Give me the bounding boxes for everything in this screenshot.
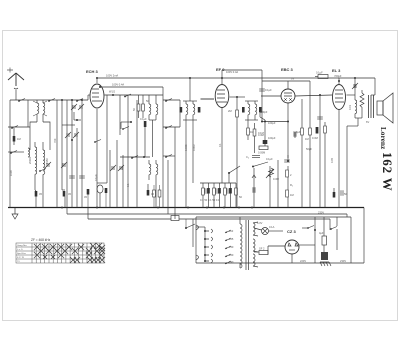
tap arrow 220 <box>225 253 234 257</box>
secondary 3 <box>253 254 255 266</box>
svg-text:100V 2mA: 100V 2mA <box>106 74 118 78</box>
bus dots <box>61 207 253 209</box>
agc resistor right2 <box>286 190 294 208</box>
EBC3 left wire <box>261 95 281 97</box>
svg-text:0.1µF: 0.1µF <box>265 88 272 92</box>
IF transformer 2 <box>242 101 262 120</box>
contact 1 <box>204 229 213 233</box>
svg-text:6V: 6V <box>366 120 369 124</box>
osc label 01C <box>218 143 222 147</box>
wire v77 <box>76 128 78 208</box>
svg-text:162 W: 162 W <box>380 152 395 192</box>
switch S2 <box>48 99 55 102</box>
bank labels <box>200 198 220 202</box>
svg-text:0.1: 0.1 <box>218 143 222 147</box>
speaker wires <box>355 118 362 126</box>
svg-text:0.003: 0.003 <box>192 144 196 151</box>
misc label 1 <box>146 99 149 103</box>
bank resistor 7 <box>235 183 238 208</box>
EL3 grid cap <box>315 71 328 79</box>
svg-text:700: 700 <box>53 138 57 143</box>
small tube cap <box>97 185 103 208</box>
power right edge <box>351 208 364 264</box>
ground symbol <box>12 208 18 220</box>
bank resistor 1 <box>202 183 205 208</box>
det cap dark <box>263 136 276 144</box>
agc resistor right <box>286 166 292 190</box>
coil marks x28 <box>28 148 30 157</box>
cathode cap dark <box>105 188 108 208</box>
resistor blob 0.3M <box>312 127 318 140</box>
table X marks band2 <box>38 248 105 254</box>
EBC3 plate loads <box>301 99 304 208</box>
svg-text:0.1µF: 0.1µF <box>140 117 147 121</box>
corner tick <box>7 68 13 73</box>
EL3 top label <box>334 74 342 78</box>
gang cap C v1 <box>61 162 67 190</box>
IF2 label <box>260 110 268 114</box>
bank resistor 4 <box>218 183 221 208</box>
svg-text:0.05: 0.05 <box>330 157 334 163</box>
table X marks band3 <box>34 252 104 258</box>
antenna coil T1 left <box>33 100 39 122</box>
svg-text:100V 0.4A: 100V 0.4A <box>226 70 238 74</box>
svg-text:EL 3: EL 3 <box>332 68 341 73</box>
misc label 8 <box>126 183 130 187</box>
trimmer C o2 <box>118 165 124 171</box>
padder C p2 <box>79 176 85 178</box>
node m1 <box>109 90 116 97</box>
rail label 100V 0.4A <box>112 83 124 87</box>
rail dot 1 <box>189 77 191 79</box>
switch S3 <box>76 99 83 102</box>
svg-text:Lorenz: Lorenz <box>379 127 387 149</box>
output transformer <box>366 95 375 124</box>
mains feed wire <box>192 219 194 247</box>
wire v137 <box>136 100 138 208</box>
svg-text:6V: 6V <box>291 77 294 81</box>
svg-text:0.1µF: 0.1µF <box>266 157 273 161</box>
misc label 12 <box>330 157 334 163</box>
transformer core <box>246 220 249 270</box>
rectifier output wire <box>314 217 316 263</box>
table title ZF <box>31 238 51 242</box>
wire v67 <box>66 100 68 208</box>
CZ3 leads <box>268 245 315 263</box>
svg-text:100µF: 100µF <box>268 136 276 140</box>
bank cap 3 <box>227 188 229 194</box>
svg-text:1000: 1000 <box>9 170 13 176</box>
misc label 10 <box>192 144 196 151</box>
svg-text:0.1 50 0.1 50 0.1: 0.1 50 0.1 50 0.1 <box>200 198 220 202</box>
wire row 2 <box>8 100 30 127</box>
trimmer C t0 <box>45 162 51 168</box>
node a3 <box>81 99 83 101</box>
secondary 1 <box>253 223 255 235</box>
band switch lever <box>228 166 240 183</box>
svg-text:Spul-Kas: Spul-Kas <box>17 253 27 255</box>
tube CZ3 <box>285 240 299 254</box>
table row labels <box>17 244 27 263</box>
tube EBC3 label <box>281 67 294 72</box>
IF2 bottom chain <box>247 120 254 140</box>
svg-text:2M: 2M <box>228 109 232 113</box>
svg-text:0.3M: 0.3M <box>258 133 264 137</box>
contact 3 <box>204 245 213 249</box>
coil label 1000 <box>9 170 13 176</box>
tube EL3 <box>333 78 346 208</box>
osc coil Lb <box>149 95 158 157</box>
power bottom line <box>196 262 364 264</box>
bank cap 2 <box>216 188 218 194</box>
coil L2 label <box>45 158 49 164</box>
switch osc <box>121 122 129 130</box>
svg-text:ECH 3: ECH 3 <box>86 69 99 74</box>
screen resistor R ef9 <box>236 110 239 208</box>
fuse box <box>254 247 268 255</box>
svg-text:0.01: 0.01 <box>348 104 352 110</box>
tube EL3 label <box>332 68 341 73</box>
svg-text:0.1A: 0.1A <box>269 225 275 229</box>
svg-text:L u. S: L u. S <box>17 249 23 251</box>
lamp label <box>257 221 263 225</box>
bank resistor 3 <box>213 183 216 208</box>
node a1 <box>61 99 63 101</box>
contact 5 <box>204 259 213 263</box>
EL3 cathode parts <box>333 188 348 198</box>
RF coil L1 <box>28 142 37 190</box>
wire v82 <box>81 100 83 208</box>
svg-text:1M: 1M <box>17 137 21 141</box>
mixer out wire <box>105 94 164 96</box>
svg-text:4µF: 4µF <box>296 130 301 134</box>
bank resistor 6 <box>229 183 232 208</box>
svg-text:K.P. 78: K.P. 78 <box>17 257 25 259</box>
misc label 2 <box>228 109 232 113</box>
det diode line <box>260 113 276 146</box>
pot down wire <box>252 168 256 208</box>
wire v120 <box>119 95 121 135</box>
wire T1 bottoms <box>30 122 50 150</box>
tube EF9 label <box>216 67 225 72</box>
osc resistor Rb <box>142 95 145 118</box>
EBC3 right wire <box>295 94 332 96</box>
cathode hline <box>97 130 107 183</box>
alignment table <box>16 243 104 263</box>
right drop wires <box>347 126 358 208</box>
wire v168 <box>167 160 169 214</box>
osc coil Lc <box>149 160 151 180</box>
svg-text:150: 150 <box>229 245 234 249</box>
bus label 230V <box>318 211 324 215</box>
svg-text:EBC 3: EBC 3 <box>281 67 294 72</box>
RF coil L2 <box>43 142 45 190</box>
svg-text:0.1µF: 0.1µF <box>316 71 323 75</box>
162W title <box>380 152 395 192</box>
svg-text:EF 9: EF 9 <box>216 67 225 72</box>
trim junction <box>74 112 81 121</box>
svg-text:1M: 1M <box>290 193 294 197</box>
output choke <box>348 96 357 118</box>
agc switch row2 <box>163 100 180 129</box>
svg-text:0.003: 0.003 <box>184 144 188 151</box>
switch S1 <box>18 99 25 102</box>
agc switch row3 <box>163 127 175 219</box>
svg-text:CZ 3: CZ 3 <box>287 229 296 234</box>
plate load 2 <box>305 81 311 208</box>
mid hline <box>62 124 75 126</box>
tap arrow 150 <box>225 245 234 249</box>
IF1 feed wire <box>186 78 193 208</box>
top small labels <box>296 130 301 134</box>
bank resistor 5 <box>224 183 227 208</box>
svg-text:4µF: 4µF <box>319 231 324 235</box>
svg-text:230V: 230V <box>340 259 346 263</box>
wire v295 <box>294 131 296 138</box>
tube CZ3 label <box>287 229 296 234</box>
resistor Rk blob <box>84 189 89 208</box>
node a2 <box>71 99 73 101</box>
agc switch row1 <box>163 99 180 102</box>
svg-text:=50µF: =50µF <box>334 74 342 78</box>
rail dot 2 <box>221 77 223 79</box>
resistor Rn <box>153 185 156 208</box>
wire v72 <box>71 100 73 208</box>
secondary leads <box>253 222 258 267</box>
svg-text:100V 0.4A: 100V 0.4A <box>112 83 124 87</box>
wire v62 <box>61 100 63 170</box>
det cap marks <box>246 155 260 159</box>
bank cap 1 <box>205 188 207 194</box>
svg-text:125: 125 <box>229 237 234 241</box>
svg-text:110: 110 <box>229 229 234 233</box>
misc label 3 <box>258 133 264 137</box>
tube EBC3 <box>281 81 295 161</box>
wire v110 <box>109 150 111 208</box>
input wire row <box>10 99 88 101</box>
volume pot <box>266 168 279 181</box>
node osc <box>121 121 132 123</box>
output coupling <box>352 78 358 96</box>
top HT rail <box>97 78 375 95</box>
speaker <box>377 93 393 123</box>
svg-text:0.1: 0.1 <box>126 183 130 187</box>
EF9 grid wire <box>201 98 215 100</box>
svg-text:220: 220 <box>229 253 234 257</box>
heater wire 2 <box>88 208 330 231</box>
secondary 2 <box>253 239 255 251</box>
svg-text:0.05M: 0.05M <box>258 151 265 155</box>
EL3 grid left components <box>317 95 326 208</box>
svg-text:0.1µF: 0.1µF <box>94 174 98 181</box>
antenna down wire <box>9 100 11 208</box>
misc label 7 <box>94 174 98 181</box>
svg-text:0.3M: 0.3M <box>312 136 318 140</box>
rail label 100V 2mA <box>106 74 118 78</box>
contact 4 <box>204 253 213 257</box>
mains switch <box>185 219 195 229</box>
label 220V <box>300 259 306 263</box>
table X marks band1 <box>34 243 105 251</box>
rail dot 3 <box>354 77 356 79</box>
tap arrow 240 <box>225 260 234 264</box>
heater wire 1 <box>67 208 347 218</box>
volume switch <box>252 162 268 168</box>
switch on L2 <box>39 169 46 172</box>
wire v107 <box>106 95 108 130</box>
trimmer pair mid <box>65 132 79 141</box>
ground bus <box>8 207 364 209</box>
osc coil Ld <box>156 160 158 208</box>
EBC3 top rail <box>262 77 310 82</box>
agc cap right <box>284 155 290 162</box>
tap arrow 125 <box>225 237 234 241</box>
wire v57 <box>56 100 58 208</box>
bank resistor 2 <box>207 183 210 208</box>
wire v123 <box>122 155 124 208</box>
transformer primary <box>240 217 242 268</box>
misc label 11 <box>306 147 312 151</box>
rail dot 4 <box>96 77 98 79</box>
resistor R2 blob <box>35 190 43 208</box>
trimmer C t3 <box>78 104 84 110</box>
wire v128 <box>127 95 129 208</box>
switch m <box>124 94 131 97</box>
det resistor <box>253 123 264 153</box>
field resistor zigzag <box>360 90 364 118</box>
contact 2 <box>204 237 213 241</box>
wire v117 <box>116 140 118 208</box>
selector contact column <box>196 227 205 261</box>
svg-text:50pF: 50pF <box>306 147 312 151</box>
resistor R ant <box>13 128 21 145</box>
grid wire ECH3 <box>88 95 90 100</box>
trimmer C o1 <box>110 165 116 171</box>
svg-text:SF 2: SF 2 <box>259 247 265 251</box>
svg-text:C₄: C₄ <box>246 155 249 159</box>
svg-text:6.3V: 6.3V <box>257 221 263 225</box>
EF9 top link <box>222 70 262 78</box>
osc switch row <box>8 151 24 154</box>
svg-text:W1/2: W1/2 <box>109 90 116 94</box>
fuse on heater wire <box>171 216 179 221</box>
resistor Ro <box>158 185 161 208</box>
svg-text:ZF = 468 kHz: ZF = 468 kHz <box>31 238 51 242</box>
cap C osc <box>140 117 147 157</box>
trimmer C t2 <box>71 104 77 110</box>
EL3 plate wire <box>347 94 356 96</box>
svg-text:R₂: R₂ <box>290 183 293 187</box>
EF9 plate wire <box>230 96 246 110</box>
svg-text:100pF: 100pF <box>260 110 268 114</box>
tube ECH3 <box>90 78 104 208</box>
svg-text:230V: 230V <box>318 211 324 215</box>
switch P2 <box>330 217 337 250</box>
tube EF9 <box>215 78 229 183</box>
svg-text:240: 240 <box>229 260 234 264</box>
pilot lamp <box>254 225 283 235</box>
resistor bank line <box>200 182 236 184</box>
elko cap <box>320 252 331 266</box>
misc label 4 <box>266 157 273 161</box>
osc coil La <box>149 95 151 120</box>
pot to ground wire <box>269 166 271 208</box>
coupling cap <box>259 70 272 121</box>
osc resistor Ra <box>132 95 140 118</box>
misc label 6 <box>290 183 293 187</box>
label 230V <box>340 259 346 263</box>
osc section wire <box>120 156 150 159</box>
IF transformer 1 <box>180 101 201 120</box>
Lorenz title <box>379 127 387 149</box>
misc label 9 <box>184 144 188 151</box>
wire v278 <box>277 160 279 208</box>
switch P1 <box>302 226 314 229</box>
misc label 5 <box>239 195 242 199</box>
antenna coil T1 right <box>43 100 47 122</box>
resistor R3 blob <box>62 190 71 208</box>
svg-text:1M: 1M <box>305 137 309 141</box>
resistor Rm blob <box>147 184 155 196</box>
tube ECH3 label <box>86 69 99 74</box>
svg-text:Gang-Nor: Gang-Nor <box>17 244 27 247</box>
avc line <box>261 121 289 123</box>
padder C p1 <box>69 176 75 178</box>
filter cap 1 <box>319 217 327 252</box>
svg-text:220V: 220V <box>300 259 306 263</box>
coil label 700 <box>53 138 57 143</box>
mains plug <box>196 217 199 263</box>
switch S4 <box>11 126 18 129</box>
table X marks band4 <box>43 255 105 263</box>
screen rail <box>100 87 163 208</box>
det box resistor <box>258 146 268 155</box>
svg-text:20000: 20000 <box>28 156 32 164</box>
antenna <box>8 73 24 100</box>
EF9 label2 <box>226 70 238 74</box>
tap arrow 110 <box>225 229 234 233</box>
power top line <box>196 216 351 218</box>
cathode switch <box>94 140 101 143</box>
